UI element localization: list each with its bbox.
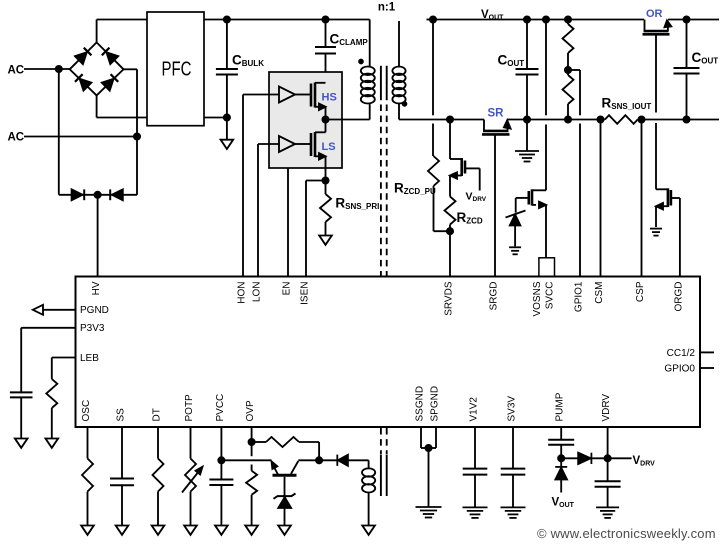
wire CSP pin <box>641 120 643 277</box>
svg-text:RSNS_PRI: RSNS_PRI <box>335 196 379 212</box>
wire ORGD pin <box>679 198 681 277</box>
svg-text:GPIO1: GPIO1 <box>574 281 585 312</box>
svg-text:VDRV: VDRV <box>466 190 487 203</box>
capacitor SS <box>121 427 123 479</box>
svg-text:HON: HON <box>237 282 248 304</box>
driver block (gray) <box>269 72 342 168</box>
wire HON pin <box>242 95 244 277</box>
diode pump to VDRV <box>561 457 578 459</box>
junction CBULK top <box>224 16 230 22</box>
wire HV pin <box>97 195 99 277</box>
wire core dashed upper <box>381 105 387 276</box>
ground RSNS_PRI <box>319 236 332 245</box>
junction CSP rail node <box>638 116 644 122</box>
ground SS <box>116 526 129 535</box>
svg-text:SRVDS: SRVDS <box>444 281 455 316</box>
ground V1V2 earth <box>463 506 488 508</box>
diode zener VOSNS gate <box>506 211 526 218</box>
junction VDRV node <box>605 455 611 461</box>
svg-text:SVCC: SVCC <box>545 282 556 310</box>
wire ISEN pin <box>305 181 307 277</box>
transistor VOSNS FET <box>532 189 546 191</box>
wire PVCC to Q1 emitter <box>221 459 271 461</box>
wire AC1 down to HV diodes <box>58 69 60 195</box>
diode D6 (AC2 to HV) <box>112 189 123 200</box>
wire EN pin <box>287 168 289 277</box>
wire CC1/2 stub <box>700 351 714 353</box>
transformer T1 primary winding <box>369 20 371 68</box>
svg-text:VOSNS: VOSNS <box>532 281 543 316</box>
wire SRVDS upper <box>449 120 451 160</box>
svg-text:CCLAMP: CCLAMP <box>330 32 369 48</box>
svg-text:CSP: CSP <box>635 281 646 302</box>
wire SRVDS pin <box>449 231 451 276</box>
wire divider to GPIO1 <box>568 69 580 71</box>
capacitor VDRV <box>595 481 621 487</box>
svg-text:P3V3: P3V3 <box>80 323 105 334</box>
wire bridge + output up <box>96 20 98 43</box>
wire P3V3 <box>21 327 75 329</box>
wire top rail to PFC <box>97 19 147 21</box>
wire SSGND/SPGND bracket <box>420 427 422 448</box>
wire VOUT down to RZCD_PU <box>432 20 434 116</box>
capacitor P3V3 bypass <box>10 392 33 397</box>
svg-text:LON: LON <box>252 282 263 303</box>
transformer T1 secondary winding <box>398 21 400 68</box>
ground zener <box>509 246 521 248</box>
ground LEB <box>46 439 59 448</box>
wire HON to buffer <box>243 94 279 96</box>
junction SRVDS rail node <box>447 116 453 122</box>
diode bridge D1 (lower-left) <box>75 74 92 91</box>
svg-text:LEB: LEB <box>80 353 99 364</box>
wire HV diode row <box>59 194 137 196</box>
svg-text:RSNS_IOUT: RSNS_IOUT <box>602 96 652 112</box>
junction OVP node <box>249 439 255 445</box>
inductor aux winding <box>368 460 370 468</box>
capacitor COUT1 <box>524 16 530 22</box>
svg-text:EN: EN <box>282 282 293 296</box>
ground SSGND earth <box>416 506 442 508</box>
resistor RSNS_PRI <box>325 181 327 195</box>
wire VOUT rail <box>433 19 644 21</box>
resistor DT <box>157 427 159 459</box>
resistor RZCD <box>445 197 456 225</box>
wire VDRV pin <box>607 427 609 481</box>
svg-text:SV3V: SV3V <box>507 396 518 422</box>
svg-text:n:1: n:1 <box>378 2 396 14</box>
junction PUMP node <box>558 455 564 461</box>
svg-text:SR: SR <box>488 108 505 120</box>
wire switch node to primary <box>326 119 370 121</box>
junction SSGND/SPGND <box>425 445 431 451</box>
wire ISEN tap <box>306 180 326 182</box>
wire LON pin <box>257 144 259 277</box>
junction VOUT node <box>430 16 436 22</box>
junction CCLAMP top <box>322 16 328 22</box>
transistor HS MOSFET <box>295 94 311 96</box>
wire CSM pin <box>600 120 602 277</box>
ground SV3V earth <box>501 506 526 508</box>
svg-text:OVP: OVP <box>245 400 256 421</box>
resistor LEB <box>46 379 57 408</box>
resistor OSC <box>87 427 89 459</box>
junction AC1/diode leg <box>56 66 62 72</box>
capacitor SV3V <box>512 427 514 469</box>
ground POTP <box>184 526 197 535</box>
wire OVP pin <box>251 427 253 456</box>
wire OR gate down <box>655 34 657 112</box>
svg-text:CBULK: CBULK <box>232 53 264 69</box>
resistor RZCD_PU <box>428 156 439 186</box>
op-amp U1 controller IC body <box>76 277 701 428</box>
wire VOUT rail stub <box>427 19 434 21</box>
svg-text:SSGND: SSGND <box>415 386 426 422</box>
diode bridge D3 (upper-right) <box>102 48 119 65</box>
bridge rectifier frame <box>70 42 124 95</box>
wire LEB <box>52 357 76 359</box>
PFC block <box>147 12 204 126</box>
ground CBULK <box>226 118 228 140</box>
svg-text:HS: HS <box>322 91 337 103</box>
resistor OVP lower <box>246 471 257 495</box>
capacitor PVCC <box>220 427 222 480</box>
wire top rail PFC to transformer <box>204 19 370 21</box>
wire switch node down <box>325 120 327 133</box>
buffer HS driver <box>279 87 295 103</box>
svg-text:AC: AC <box>8 65 25 77</box>
junction divider node <box>565 67 571 73</box>
svg-text:© www.electronicsweekly.com: © www.electronicsweekly.com <box>537 526 716 541</box>
svg-text:RZCD: RZCD <box>457 210 483 226</box>
diode zener Q1 base <box>274 493 296 498</box>
wire secondary return rail <box>399 119 484 121</box>
resistor OVP feedback (horizontal) <box>252 441 266 443</box>
junction HV node <box>95 192 101 198</box>
transformer aux core solid <box>380 455 382 497</box>
node secondary phase dot <box>403 102 407 106</box>
junction CSM rail node <box>597 116 603 122</box>
svg-text:OSC: OSC <box>81 400 92 422</box>
capacitor PUMP <box>560 427 562 440</box>
capacitor CCLAMP <box>325 20 327 48</box>
svg-text:RZCD_PU: RZCD_PU <box>394 181 436 197</box>
capacitor CBULK <box>226 20 228 70</box>
wire VOUT rail right of OR <box>668 19 719 21</box>
transformer T1 core <box>380 66 382 100</box>
svg-text:ISEN: ISEN <box>300 282 311 305</box>
junction CBULK bottom <box>224 114 230 120</box>
wire core dashed lower <box>381 428 387 454</box>
svg-text:PFC: PFC <box>162 59 192 81</box>
svg-text:DT: DT <box>152 408 163 421</box>
ground OSC <box>81 526 94 535</box>
transistor ZCD FET <box>450 158 462 160</box>
resistor RSNS_IOUT <box>605 115 638 124</box>
ground PVCC <box>215 526 228 535</box>
svg-text:LS: LS <box>322 141 336 153</box>
resistor divider upper (VOSNS) <box>565 16 571 22</box>
svg-text:PUMP: PUMP <box>555 392 566 421</box>
ground P3V3 <box>15 439 28 448</box>
junction LS source node <box>322 177 328 183</box>
svg-text:VDRV: VDRV <box>633 455 656 468</box>
diode D5 (AC1 to HV) <box>72 189 83 200</box>
wire AC2 horizontal <box>24 136 137 138</box>
buffer LS driver <box>279 136 295 152</box>
capacitor V1V2 <box>474 427 476 469</box>
ground DT <box>152 526 165 535</box>
ground zener <box>278 526 291 535</box>
svg-text:GPIO0: GPIO0 <box>664 364 695 375</box>
wire SVCC sense from VOUT rail <box>543 16 549 22</box>
ground VDRV earth <box>596 506 619 508</box>
wire bridge - output down <box>96 95 98 117</box>
svg-text:PVCC: PVCC <box>215 394 226 422</box>
diode bridge D2 (upper-left) <box>75 48 92 65</box>
ground OVP <box>245 526 258 535</box>
svg-text:SPGND: SPGND <box>430 386 441 422</box>
resistor divider lower <box>567 70 569 75</box>
svg-text:OR: OR <box>646 8 663 20</box>
wire GPIO1 pin <box>579 70 581 115</box>
node primary phase dot <box>359 60 363 64</box>
svg-text:AC: AC <box>8 131 25 143</box>
node VOSNS/SVCC box <box>539 258 555 277</box>
svg-text:SRGD: SRGD <box>489 282 500 311</box>
capacitor COUT2 <box>683 16 689 22</box>
wire LON to buffer <box>258 143 279 145</box>
svg-text:VOUT: VOUT <box>552 497 575 510</box>
diode bridge D4 (lower-right) <box>102 74 119 91</box>
junction PVCC node <box>218 457 224 463</box>
svg-text:HV: HV <box>91 281 102 295</box>
svg-text:VDRV: VDRV <box>601 394 612 422</box>
ground PGND arrow <box>33 305 43 315</box>
transistor Q1 BJT <box>273 474 297 477</box>
junction RZCD/RZCD_PU node <box>447 228 453 234</box>
wire PGND <box>43 309 76 311</box>
junction switch node <box>322 116 328 122</box>
svg-text:ORGD: ORGD <box>673 282 684 312</box>
ground ORGD FET <box>650 228 662 230</box>
svg-text:COUT: COUT <box>692 50 719 66</box>
wire GPIO0 stub <box>700 367 714 369</box>
wire PFC bottom to CBULK <box>204 117 227 119</box>
svg-text:SS: SS <box>116 408 127 422</box>
wire SRGD pin <box>494 134 496 276</box>
ground output return <box>524 116 530 122</box>
ground aux winding <box>362 526 375 535</box>
junction Q1 collector node <box>316 457 322 463</box>
svg-text:COUT: COUT <box>498 53 525 69</box>
diode VOUT to pump <box>555 466 567 468</box>
wire bottom return to PFC <box>97 117 147 119</box>
svg-text:PGND: PGND <box>80 305 109 316</box>
svg-text:POTP: POTP <box>184 394 195 422</box>
diode aux supply <box>319 459 337 461</box>
junction AC2/diode leg <box>134 133 140 139</box>
wire VDRV out <box>608 457 632 459</box>
wire AC2 leg down to HV diodes <box>136 69 138 195</box>
transistor ORGD FET <box>656 188 668 190</box>
svg-text:V1V2: V1V2 <box>469 397 480 422</box>
resistor POTP potentiometer <box>190 427 192 459</box>
svg-text:CSM: CSM <box>594 282 605 304</box>
wire AC1 horizontal <box>24 68 70 70</box>
svg-text:CC1/2: CC1/2 <box>667 348 696 359</box>
transistor LS MOSFET <box>295 143 311 145</box>
